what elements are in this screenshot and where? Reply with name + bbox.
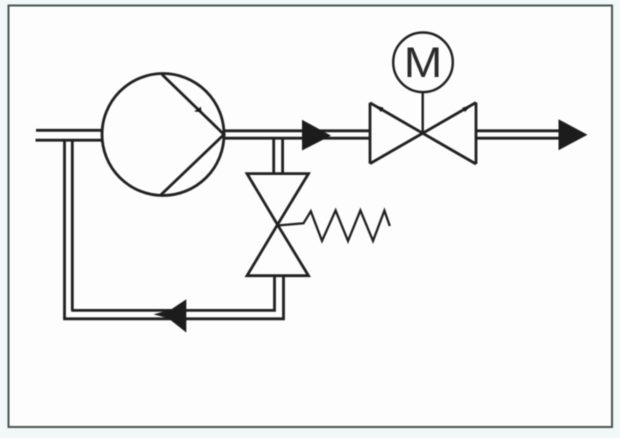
svg-text:M: M xyxy=(404,40,443,87)
